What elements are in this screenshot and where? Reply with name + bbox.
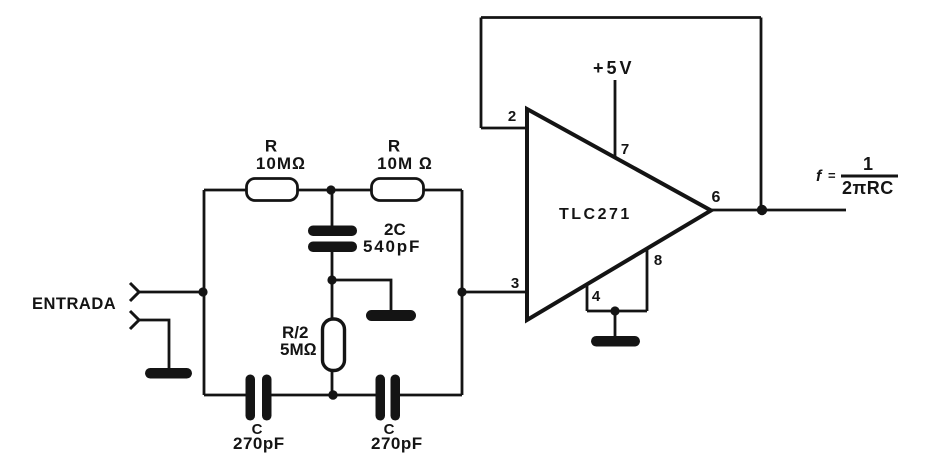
svg-text:TLC271: TLC271 [559,206,632,223]
wire 2C ground branch [332,280,391,312]
wire input bottom line to ground [139,320,169,369]
wire middle branch stub above 2C [331,190,334,227]
wire output from pin 6 [711,209,846,212]
svg-text:10MΩ: 10MΩ [256,154,306,173]
ground op-amp [591,336,640,347]
svg-text:8: 8 [654,252,662,269]
capacitor C2 plate left [376,375,386,421]
node junction right vertical [457,287,466,296]
svg-text:f: f [816,168,823,185]
op-amp U1 triangle [527,109,711,320]
wire feedback right vertical [760,18,763,211]
node junction input [198,287,207,296]
svg-text:270pF: 270pF [233,434,285,453]
wire pin4-pin8 join [587,310,647,313]
svg-text:270pF: 270pF [371,434,423,453]
resistor R1 10M [247,179,298,201]
wire feedback left vertical [480,18,483,129]
svg-text:2πRC: 2πRC [842,178,894,198]
node junction pin4-8 [610,306,619,315]
wire pin 8 stub [646,250,649,311]
wire twin-T left vertical [203,190,206,395]
wire feedback to pin 2 [481,127,527,130]
wire bottom middle segment [269,394,376,397]
label formula fraction bar [841,175,898,178]
ground input [145,368,192,379]
capacitor C1 plate right [262,375,272,421]
node junction output [757,205,767,215]
ground 2C branch [366,310,416,321]
svg-text:R: R [265,137,277,156]
svg-text:10M Ω: 10M Ω [377,154,433,173]
resistor R/2 5M [323,319,345,371]
svg-text:540pF: 540pF [363,237,421,256]
svg-text:6: 6 [712,189,721,206]
svg-text:ENTRADA: ENTRADA [32,295,116,313]
wire R/2 bottom to bottom wire [331,370,334,395]
svg-text:R: R [388,137,400,156]
svg-text:7: 7 [621,141,629,158]
wire bottom left segment [204,394,246,397]
wire junction to ground [614,311,617,340]
node junction top middle [326,185,335,194]
wire input top line [139,291,204,294]
input connector arrow top [130,283,139,301]
wire +5V supply to pin 7 [614,80,617,158]
capacitor C2 plate right [391,375,401,421]
wire twin-T right vertical [461,190,464,395]
wire feedback top [481,16,761,19]
svg-text:2: 2 [508,108,516,125]
svg-text:3: 3 [511,275,519,292]
wire node to op-amp pin 3 [462,291,527,294]
resistor R2 10M [372,179,424,201]
wire middle branch 2C to node [331,251,334,280]
svg-text:+5V: +5V [593,58,635,78]
node junction below 2C [327,275,336,284]
svg-text:5MΩ: 5MΩ [280,340,317,359]
wire node to R/2 top [331,280,334,319]
node junction bottom middle [328,390,337,399]
svg-text:1: 1 [863,154,873,174]
capacitor C1 plate left [246,375,256,421]
svg-text:=: = [828,168,836,183]
input connector arrow bottom [130,311,139,329]
capacitor 2C plate top [308,226,357,237]
wire top right segment to right vertical [424,189,462,192]
capacitor 2C plate bottom [308,242,357,253]
svg-text:4: 4 [592,288,601,305]
wire pin 4 stub [586,285,589,311]
wire top middle between R1 and R2 [298,189,371,192]
wire bottom right segment [400,394,462,397]
wire twin-T top segment left [204,189,246,192]
